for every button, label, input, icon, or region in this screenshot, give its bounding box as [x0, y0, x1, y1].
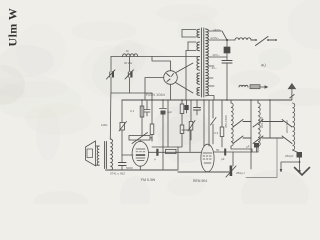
wire [226, 53, 228, 61]
wire first vertical [110, 57, 112, 94]
loudspeaker [86, 141, 96, 166]
capacitor C9 [254, 143, 259, 148]
capacitor C10 [297, 152, 303, 158]
fuse coil [235, 38, 251, 40]
capacitor C11 [144, 100, 150, 116]
wire second vertical [129, 57, 131, 94]
wire cathode return [178, 171, 229, 173]
wire grid tube2 [182, 130, 190, 152]
resistor R-field [250, 85, 260, 89]
wire rectifier right leads [176, 63, 194, 93]
grid coupling wire [148, 151, 201, 153]
wire x270 [269, 100, 271, 138]
svg-text:30 kΩ: 30 kΩ [124, 61, 133, 65]
switch row 2 [233, 136, 292, 144]
main bus y100 [122, 99, 292, 101]
svg-text:9741 u 962: 9741 u 962 [110, 172, 125, 176]
capacitor C3 [222, 61, 232, 64]
wire top rail [111, 56, 200, 58]
detector tube REN904 [201, 144, 214, 172]
capacitor C7 [196, 100, 198, 107]
wire rectifier to bus [170, 84, 172, 100]
field coil [239, 85, 248, 87]
capacitor C4 [119, 163, 127, 166]
wire mains junction [222, 31, 235, 47]
resistor R5 [220, 127, 224, 137]
wire [226, 63, 228, 100]
speaker voice winding [97, 146, 99, 165]
svg-text:250pF: 250pF [285, 154, 294, 158]
capacitor C5 electrolytic [160, 108, 167, 110]
node dots on bus [141, 99, 271, 101]
coil A [231, 103, 233, 146]
svg-text:µF: µF [246, 145, 250, 149]
wire x178 down [177, 147, 179, 169]
svg-text:µF: µF [221, 157, 225, 161]
ground chassis arrow [295, 168, 310, 176]
svg-text:Dr: Dr [126, 49, 129, 53]
svg-text:5000: 5000 [126, 166, 133, 170]
grid leak resistor [166, 149, 177, 153]
svg-text:RGN 1064: RGN 1064 [146, 92, 166, 97]
capacitor C6 [186, 100, 188, 105]
svg-text:20V~: 20V~ [213, 53, 220, 57]
choke L1 [123, 54, 138, 57]
wire to ground [281, 158, 300, 172]
wire stub [151, 93, 153, 100]
bottom wire left [106, 169, 179, 171]
wire rectifier top leads [152, 57, 171, 71]
svg-text:250µ c: 250µ c [236, 171, 246, 175]
resistor R1 [140, 106, 144, 117]
svg-text:50: 50 [216, 148, 220, 152]
trimmer capacitor C1 [107, 70, 116, 79]
svg-text:Ulm W: Ulm W [6, 8, 20, 47]
wire x140 branch [141, 100, 143, 136]
switch row 1 [233, 120, 292, 128]
wire rectifier left lead [145, 78, 164, 101]
coil B [258, 103, 260, 146]
wire arrow [260, 86, 267, 88]
output tube AL4 [132, 141, 148, 166]
svg-text:AÜ: AÜ [261, 64, 266, 68]
wire x152 branch [151, 100, 153, 124]
svg-text:µ: µ [199, 107, 201, 111]
wire x168 branch [167, 100, 169, 147]
wire plate lead right [214, 151, 258, 153]
coil C [293, 103, 295, 150]
svg-text:220V~: 220V~ [211, 36, 220, 40]
resistor R3 [180, 104, 184, 114]
svg-text:240V~: 240V~ [213, 28, 222, 32]
svg-text:µ: µ [154, 157, 156, 161]
svg-text:4V~: 4V~ [212, 66, 218, 70]
wire tube2 top leads [204, 100, 209, 146]
wire secondary taps [208, 31, 227, 100]
potentiometer P1 [120, 123, 125, 131]
transformer secondary winding [206, 29, 209, 96]
wire x277 drop [246, 138, 277, 178]
wire drop to trimmer [232, 152, 234, 166]
trimmer T2 [230, 166, 233, 177]
wire x222 branch [221, 100, 223, 127]
svg-text:350-1500: 350-1500 [224, 115, 228, 128]
output transformer winding [110, 139, 112, 170]
transformer core [201, 28, 203, 97]
wire primary taps [182, 30, 196, 51]
transformer primary winding [197, 29, 200, 37]
svg-text:0,3: 0,3 [214, 131, 219, 135]
svg-text:REN 904: REN 904 [193, 179, 207, 183]
wire x213 switch [211, 100, 217, 144]
resistor R2 [150, 124, 154, 135]
potentiometer P2 [129, 136, 150, 141]
antenna [288, 84, 295, 89]
wire x251 [250, 100, 252, 169]
rectifier tube RGN1064 [164, 71, 178, 85]
wire x122 branch [121, 100, 123, 122]
wire x163 branch [162, 100, 164, 108]
fuse F1 [224, 47, 230, 53]
svg-text:0,1: 0,1 [130, 109, 135, 113]
resistor R4 [180, 125, 184, 134]
output transformer core [105, 142, 107, 169]
capacitor C8 [224, 149, 226, 156]
wire x182 branch [181, 100, 183, 104]
potentiometer P3 [190, 100, 192, 121]
svg-text:1MΩ: 1MΩ [101, 123, 108, 127]
svg-text:200-600: 200-600 [260, 117, 264, 128]
switch S1 [251, 37, 276, 46]
grid capacitor [156, 149, 158, 156]
wire horizontal y93 [111, 92, 152, 94]
wire grid [122, 154, 133, 156]
svg-text:FM 5.3W: FM 5.3W [141, 178, 156, 182]
trimmer capacitor C2 [125, 70, 134, 79]
